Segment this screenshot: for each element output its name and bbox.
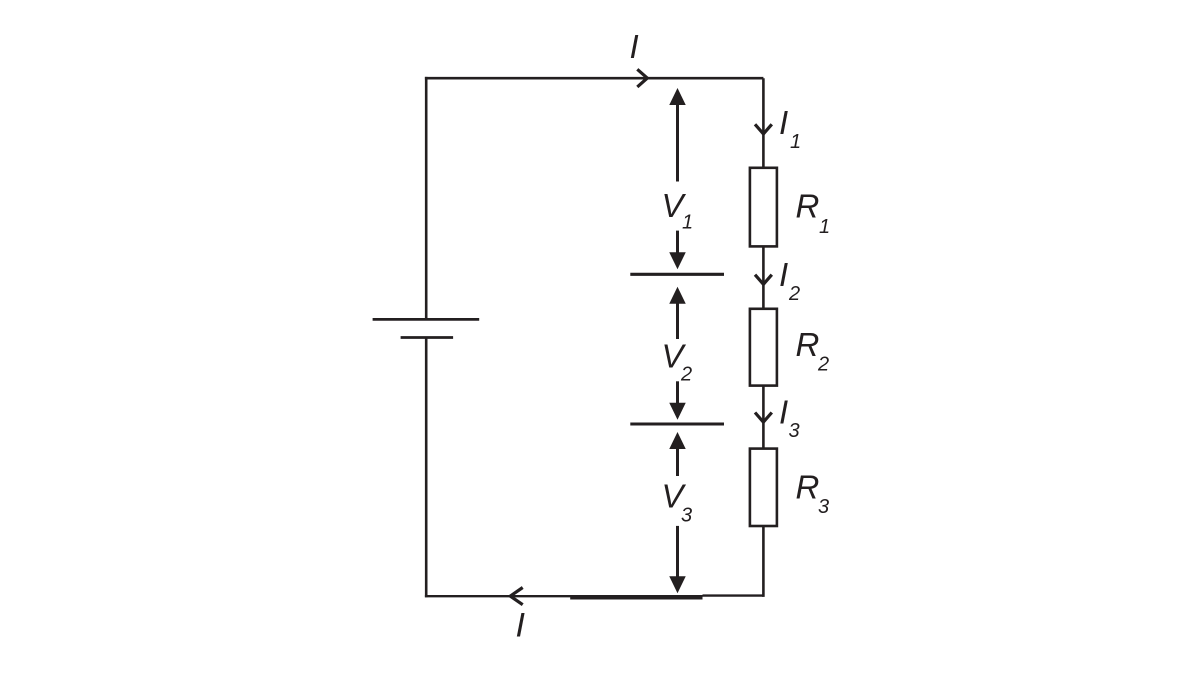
voltage arrow V2 down segment [676,381,679,404]
voltage arrow V1 down segment [676,231,679,253]
wire between R2 and R3 [762,386,765,449]
svg-text:3: 3 [789,420,800,442]
current arrow I2 [755,275,772,285]
svg-text:I: I [516,606,526,644]
battery short plate [401,336,454,339]
node bar between V1 and V2 [630,273,724,276]
svg-text:I: I [779,256,788,293]
svg-text:1: 1 [819,216,830,238]
wire between R1 and R2 [762,246,765,308]
svg-text:2: 2 [788,283,800,305]
wire bottom [425,595,703,597]
voltage arrow V1 up segment [669,88,686,105]
wire bottom overlap segment [570,597,702,600]
resistor R2 [750,309,777,386]
wire right lower [762,526,765,597]
current arrow I on bottom wire [510,588,522,605]
svg-text:3: 3 [818,496,829,518]
wire left upper (to battery) [425,77,428,320]
resistor R1 [750,168,777,247]
svg-text:R: R [796,326,820,363]
wire bottom right part [703,594,764,596]
svg-text:2: 2 [680,364,692,386]
battery long plate [373,318,480,321]
svg-text:I: I [779,104,788,141]
svg-text:R: R [796,469,820,506]
current arrow I3 [755,413,772,423]
current arrow I on top wire [637,69,647,87]
voltage arrow V2 up segment [669,287,686,304]
svg-text:2: 2 [817,354,829,376]
voltage arrow V3 down segment [676,526,679,578]
svg-text:R: R [796,188,820,225]
node bar between V2 and V3 [630,422,724,425]
svg-text:I: I [630,28,639,65]
wire right upper [762,78,765,168]
voltage arrow V3 up segment [669,432,686,449]
svg-text:3: 3 [681,504,692,526]
resistor R3 [750,449,777,526]
svg-text:I: I [779,394,788,431]
wire left lower (from battery) [425,338,428,598]
wire top [425,77,764,80]
svg-text:1: 1 [682,212,693,234]
svg-text:1: 1 [790,131,801,153]
current arrow I1 [755,124,772,134]
